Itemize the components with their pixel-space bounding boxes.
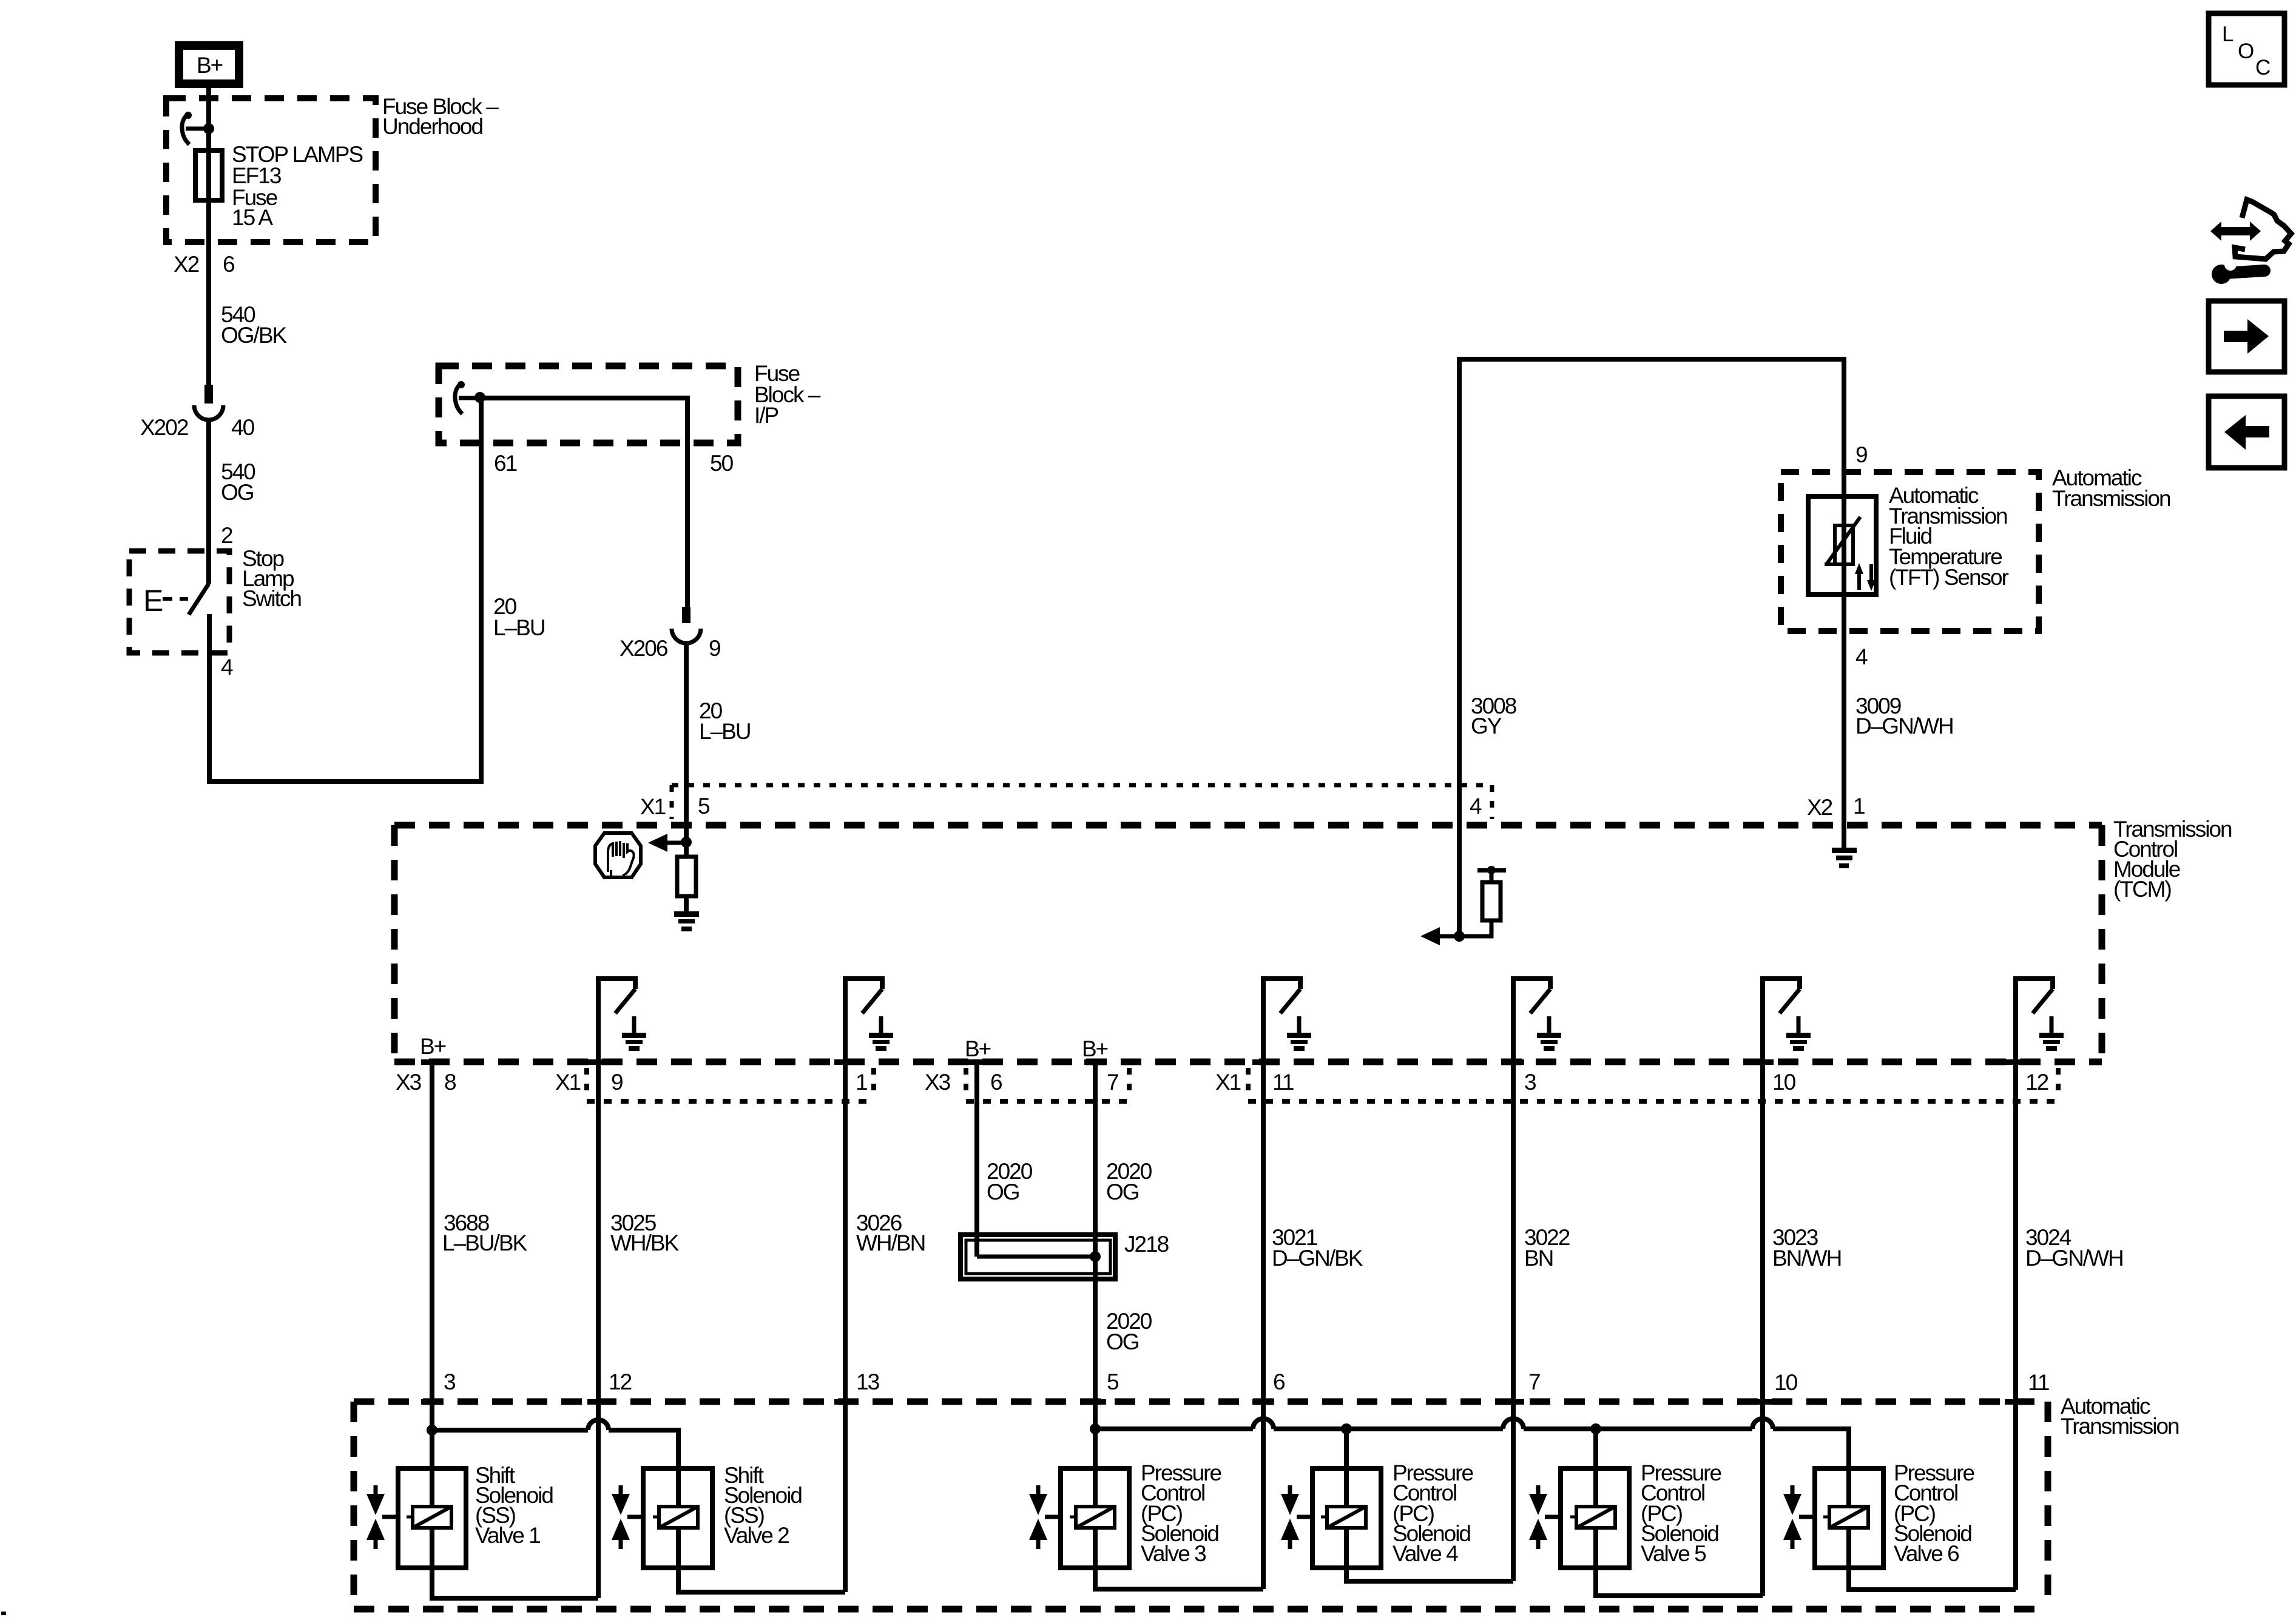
svg-text:12: 12 — [2025, 1070, 2048, 1095]
svg-text:X202: X202 — [140, 415, 188, 440]
shift solenoid SS1 — [398, 1430, 466, 1568]
svg-text:40: 40 — [231, 415, 255, 440]
svg-text:OG: OG — [1106, 1329, 1139, 1354]
Automatic Transmission box label — [2052, 465, 2170, 511]
wire 3021 D-GN/BK pin 11 to pin 6 — [1263, 1065, 1363, 1589]
wire SS feed with hop — [432, 1420, 678, 1468]
ground at pin 5 — [674, 911, 699, 931]
wire PC feed with hops — [1095, 1419, 1849, 1468]
svg-text:10: 10 — [1772, 1070, 1796, 1095]
svg-text:Valve 4: Valve 4 — [1393, 1541, 1458, 1566]
svg-text:X3: X3 — [396, 1070, 421, 1095]
svg-text:8: 8 — [444, 1070, 456, 1095]
pressure control solenoid V5 — [1561, 1429, 1629, 1568]
svg-text:D–GN/BK: D–GN/BK — [1272, 1246, 1363, 1271]
svg-text:L: L — [2222, 22, 2234, 46]
V6 label — [1894, 1460, 1974, 1566]
wire 3008 GY — [1459, 359, 1516, 936]
wire 3026 WH/BN pin 1 to pin 13 — [845, 1065, 925, 1592]
pressure control solenoid V6 — [1815, 1468, 1883, 1568]
svg-text:X3: X3 — [925, 1070, 950, 1095]
wire TFT sensor top run — [1459, 359, 1844, 936]
wire 2020 OG pin 7 — [1095, 1065, 1152, 1429]
connector X3 pin 7 label — [1107, 1068, 1129, 1098]
service icon hand with arrow — [2210, 200, 2291, 259]
svg-text:B+: B+ — [1082, 1036, 1108, 1061]
wire 540 OG/BK — [209, 242, 288, 385]
connector X1 pin 1 label — [856, 1068, 874, 1098]
connector X2 pin 1 labels — [1807, 794, 1865, 820]
SS2 label — [724, 1463, 802, 1548]
junction node V4 feed — [1341, 1423, 1352, 1434]
svg-text:1: 1 — [856, 1070, 867, 1095]
svg-text:OG: OG — [1106, 1180, 1139, 1204]
arrow forward icon — [2209, 301, 2284, 372]
svg-text:Underhood: Underhood — [382, 114, 483, 139]
connector X1 pin 5 labels — [640, 794, 710, 819]
svg-text:BN: BN — [1524, 1246, 1553, 1271]
wire switch to fuse block I/P pin 61 — [209, 398, 481, 781]
svg-text:13: 13 — [856, 1369, 879, 1394]
connector X202 pin 40 — [140, 385, 255, 440]
switch blade — [189, 584, 209, 615]
TFT sensor label — [1889, 483, 2009, 590]
svg-text:D–GN/WH: D–GN/WH — [1855, 714, 1953, 738]
svg-text:L–BU/BK: L–BU/BK — [442, 1230, 528, 1255]
junction node PC feed — [1090, 1423, 1101, 1434]
svg-text:X2: X2 — [174, 252, 199, 277]
V3 label — [1141, 1460, 1221, 1566]
TFT sensor B21 — [1808, 472, 1876, 631]
driver output pin 9 — [598, 979, 646, 1065]
connector X1 right dotted bracket — [1248, 1099, 2058, 1104]
connector X1 pin 12 label — [2025, 1068, 2058, 1098]
SS1 valve symbol — [366, 1485, 398, 1549]
svg-text:X1: X1 — [640, 794, 666, 819]
svg-text:WH/BK: WH/BK — [610, 1230, 680, 1255]
svg-text:Valve 5: Valve 5 — [1641, 1541, 1706, 1566]
svg-text:L–BU: L–BU — [699, 719, 751, 744]
Fuse Block I/P label — [754, 361, 821, 428]
Automatic Transmission solenoid box — [354, 1402, 2048, 1609]
svg-text:D–GN/WH: D–GN/WH — [2025, 1246, 2123, 1271]
Automatic Transmission sensor box — [1781, 472, 2039, 631]
svg-text:E: E — [143, 584, 163, 618]
boundary ticks solenoid box — [421, 1399, 2027, 1405]
wire V4 return to pin 7 — [1346, 1568, 1513, 1581]
svg-text:J218: J218 — [1124, 1232, 1169, 1257]
shift solenoid SS2 — [643, 1468, 712, 1568]
wire V5 return to pin 10 — [1596, 1568, 1763, 1596]
svg-text:6: 6 — [1273, 1369, 1285, 1394]
wire 3022 BN pin 3 to pin 7 — [1513, 1065, 1570, 1581]
boundary ticks TCM — [421, 1059, 2027, 1065]
page mark — [1, 1612, 6, 1615]
junction node — [203, 123, 214, 134]
svg-text:WH/BN: WH/BN — [856, 1230, 925, 1255]
connector X1 dotted bracket top — [672, 785, 1492, 819]
service icon wrench — [2212, 258, 2264, 284]
svg-text:4: 4 — [1470, 794, 1482, 819]
svg-text:9: 9 — [709, 636, 720, 661]
svg-text:C: C — [2255, 56, 2271, 79]
Fuse Block I/P box — [439, 366, 738, 443]
svg-text:11: 11 — [2028, 1370, 2049, 1395]
svg-text:(TFT) Sensor: (TFT) Sensor — [1889, 565, 2009, 590]
junction node pin 61 — [474, 392, 485, 403]
svg-text:5: 5 — [698, 794, 710, 819]
connector X1 pin 11 labels — [1215, 1068, 1294, 1098]
wire 20 L-BU to TCM — [684, 642, 689, 842]
junction node SS feed — [427, 1425, 437, 1436]
wire clip to junction — [459, 396, 481, 400]
svg-text:6: 6 — [223, 252, 234, 277]
switch actuator E with dashed link — [143, 584, 188, 618]
stop-hand octagon icon — [595, 833, 641, 877]
svg-text:Transmission: Transmission — [2052, 486, 2170, 511]
connector X3 pin 8 labels — [396, 1070, 456, 1095]
svg-text:B+: B+ — [420, 1034, 446, 1059]
svg-text:4: 4 — [1855, 644, 1868, 669]
svg-text:BN/WH: BN/WH — [1772, 1246, 1841, 1271]
wire V6 return to pin 11 — [1849, 1568, 2016, 1590]
connector X3 pin 6 labels — [925, 1068, 1002, 1098]
pull-up resistor at pin 5 — [677, 842, 696, 911]
svg-text:X206: X206 — [620, 636, 667, 661]
TCM label — [2113, 817, 2232, 902]
wire 20 L-BU upper right label — [699, 698, 751, 744]
pressure control solenoid V3 — [1061, 1429, 1129, 1568]
svg-text:4: 4 — [221, 655, 233, 680]
wire 540 OG — [209, 419, 255, 584]
wire 3024 D-GN/WH pin 12 to pin 11 — [2016, 1065, 2123, 1590]
svg-text:OG/BK: OG/BK — [221, 323, 288, 348]
wire 3023 BN/WH pin 10 to pin 10 — [1763, 1065, 1841, 1596]
svg-text:Transmission: Transmission — [2061, 1414, 2179, 1439]
svg-text:(TCM): (TCM) — [2113, 877, 2171, 902]
battery feed B+ terminal — [179, 46, 239, 84]
connector X2 pin 6 labels — [174, 252, 234, 277]
junction node pin 5 — [681, 837, 692, 848]
svg-text:7: 7 — [1107, 1070, 1118, 1095]
svg-text:9: 9 — [611, 1070, 623, 1095]
pull-up resistor at pin 4 — [1459, 882, 1501, 936]
pressure control solenoid V4 — [1312, 1429, 1381, 1568]
svg-text:X1: X1 — [1215, 1070, 1241, 1095]
driver output pin 11 — [1263, 979, 1311, 1065]
svg-text:Valve 6: Valve 6 — [1894, 1541, 1959, 1566]
SS2 valve symbol — [612, 1485, 643, 1549]
fuse block I/P clip terminal — [455, 383, 462, 414]
connector X1 left dotted bracket — [587, 1099, 874, 1104]
connector X3 dotted bracket — [966, 1099, 1129, 1104]
wire 3009 D-GN/WH — [1844, 631, 1953, 829]
junction node pin 4 — [1454, 931, 1465, 942]
V4 label — [1393, 1460, 1473, 1566]
connector X206 pin 9 — [620, 607, 720, 661]
wire clip to junction — [186, 127, 209, 131]
svg-text:X1: X1 — [555, 1070, 581, 1095]
svg-text:5: 5 — [1107, 1369, 1119, 1394]
driver output pin 3 — [1513, 979, 1561, 1065]
svg-text:50: 50 — [710, 451, 734, 476]
wire 2020 OG pin 6 — [977, 1065, 1033, 1257]
svg-text:12: 12 — [609, 1369, 632, 1394]
V4 valve symbol — [1281, 1485, 1312, 1549]
svg-text:L–BU: L–BU — [493, 615, 545, 640]
Stop Lamp Switch box — [129, 551, 229, 653]
svg-text:Valve 2: Valve 2 — [724, 1523, 789, 1548]
LOC icon — [2209, 13, 2284, 85]
Fuse Block Underhood box — [166, 98, 376, 242]
V6 valve symbol — [1783, 1485, 1815, 1549]
svg-text:Valve 3: Valve 3 — [1141, 1541, 1206, 1566]
arrow back icon — [2209, 396, 2284, 468]
wire B+ to fuse EF13 — [206, 88, 211, 385]
svg-text:1: 1 — [1853, 794, 1865, 819]
ground at pin 1 X2 — [1832, 829, 1857, 868]
splice J218 — [961, 1232, 1169, 1279]
SS1 label — [475, 1463, 553, 1548]
svg-text:OG: OG — [987, 1180, 1019, 1204]
svg-text:B+: B+ — [965, 1036, 991, 1061]
Fuse Block Underhood label — [382, 94, 499, 139]
V5 valve symbol — [1529, 1485, 1561, 1549]
internal reference bar at pin 4 — [1477, 866, 1506, 882]
svg-text:EF13: EF13 — [232, 163, 281, 188]
fuse EF13 label — [232, 142, 362, 230]
svg-text:X2: X2 — [1807, 795, 1832, 820]
solenoid box label — [2061, 1394, 2179, 1439]
fuse EF13 15A — [195, 150, 222, 200]
svg-text:3: 3 — [444, 1369, 455, 1394]
svg-text:O: O — [2238, 39, 2254, 63]
Transmission Control Module box — [394, 825, 2102, 1062]
junction node V5 feed — [1590, 1423, 1601, 1434]
svg-text:GY: GY — [1471, 714, 1502, 738]
V3 valve symbol — [1029, 1485, 1061, 1549]
driver output pin 1 — [845, 979, 893, 1065]
svg-text:7: 7 — [1528, 1369, 1540, 1394]
V5 label — [1641, 1460, 1721, 1566]
svg-text:61: 61 — [494, 451, 517, 476]
arrow into TCM at pin 5 — [648, 834, 686, 852]
wire SS1 return to pin 12 — [432, 1568, 598, 1598]
wire 20 L-BU left label — [493, 594, 545, 640]
svg-text:B+: B+ — [197, 53, 223, 78]
wire 3688 L-BU/BK pin 8 to pin 3 — [432, 1065, 528, 1430]
internal jumper 61 to 50 — [480, 398, 687, 608]
svg-text:2: 2 — [221, 523, 232, 548]
svg-text:Valve 1: Valve 1 — [475, 1523, 540, 1548]
svg-text:10: 10 — [1774, 1370, 1798, 1395]
fuse clip terminal — [182, 113, 189, 144]
wire 3025 WH/BK pin 9 to pin 12 — [598, 1065, 680, 1598]
wire 2020 OG below splice — [1106, 1309, 1152, 1354]
svg-text:6: 6 — [990, 1070, 1002, 1095]
svg-text:11: 11 — [1272, 1070, 1294, 1095]
svg-text:15 A: 15 A — [232, 205, 273, 230]
svg-text:Switch: Switch — [242, 586, 301, 611]
svg-text:3: 3 — [1524, 1070, 1536, 1095]
wire V3 return to pin 6 — [1095, 1568, 1263, 1589]
wire SS2 return to pin 13 — [678, 1568, 845, 1592]
connector X1 pin 9 labels — [555, 1068, 623, 1098]
svg-text:I/P: I/P — [754, 403, 778, 428]
driver output pin 12 — [2016, 979, 2064, 1065]
svg-text:9: 9 — [1855, 442, 1867, 467]
Stop Lamp Switch label — [242, 546, 301, 611]
arrow continuation at pin 4 — [1420, 927, 1459, 945]
driver output pin 10 — [1763, 979, 1811, 1065]
svg-text:OG: OG — [221, 480, 254, 505]
